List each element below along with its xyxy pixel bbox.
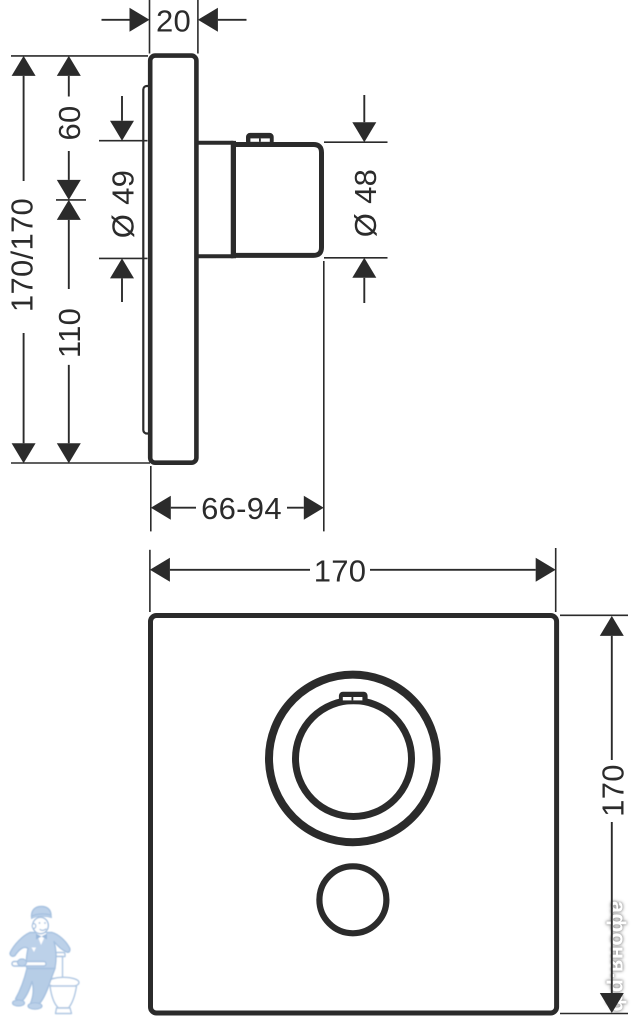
extension line 20-right [197,0,199,54]
knob body side view [233,145,321,256]
extension line diameter49 bottom [99,257,148,259]
extension line bottom 170/170 [11,462,150,464]
dimension 60 [52,56,87,200]
mascot hand on plunger [18,959,27,966]
extension line 20-left [149,0,151,54]
svg-text:Ø 49: Ø 49 [106,170,141,238]
dimension diameter 49 [106,96,141,302]
toilet tank [49,957,63,979]
mascot jacket and arms [10,933,70,969]
mascot head [33,917,49,933]
extension line 170top right [555,548,557,612]
extension line 170right top [560,614,628,616]
knob grip button side view [246,133,274,146]
svg-text:60: 60 [52,105,87,140]
dimension diameter 48 [348,95,383,303]
mascot shirt [37,933,47,945]
extension line diameter48 bottom [324,257,388,259]
knob grip button front view [339,692,368,705]
mascot pocket square [32,948,37,953]
mascot ear [32,924,36,929]
watermark text afonya.rf [605,901,630,1012]
plunger [12,962,46,967]
dimension 110 [52,200,87,463]
faceplate front view [151,616,557,1014]
svg-text:170: 170 [595,764,630,817]
mascot bowtie [36,934,47,940]
mascot trousers [16,969,56,1004]
svg-text:170: 170 [314,553,367,588]
thermostat handle inner ring [296,701,412,817]
extension line 66-94 right [323,261,325,531]
dimension 170/170 [5,56,40,463]
toilet bowl [50,986,77,1008]
extension line 170top left [149,550,151,612]
mascot shoes [13,1000,25,1006]
svg-text:66-94: 66-94 [201,491,282,526]
svg-text:20: 20 [156,3,191,38]
dimension 170 top [150,553,556,588]
svg-text:170/170: 170/170 [5,198,40,312]
select button front view [319,866,386,933]
toilet rim [48,977,79,987]
mascot cap [32,907,52,917]
svg-text:Ø 48: Ø 48 [348,169,383,237]
extension line diameter49 top [99,140,148,142]
extension line top 170/170 [11,55,148,57]
extension line 170right bottom [560,1013,628,1015]
escutcheon plate side view [150,56,196,463]
svg-text:110: 110 [52,308,87,358]
dimension 170 right [595,616,630,1013]
extension line diameter48 top [324,141,388,143]
node knob axis tick [56,199,86,201]
knob stem bottom line [196,254,233,258]
extension line 66-94 left [150,466,152,531]
thermostat handle outer ring [269,675,437,843]
wall flange strip [143,86,152,434]
knob left edge [231,141,236,258]
knob stem top line [196,141,233,145]
toilet base [56,1008,72,1014]
dimension 20 [102,3,247,38]
toilet tank lid [47,953,65,957]
watermark plumber mascot [10,907,79,1014]
dimension 66-94 [151,491,324,526]
mascot eyes and mouth [39,922,41,924]
